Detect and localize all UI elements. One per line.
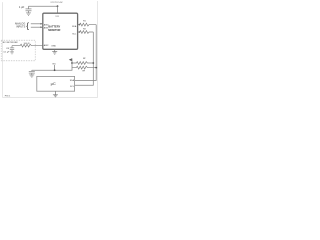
junction dot VCC node bbox=[57, 5, 59, 7]
svg-text:BATTERY: BATTERY bbox=[48, 25, 60, 29]
svg-text:RP: RP bbox=[83, 58, 86, 60]
svg-text:SDA: SDA bbox=[70, 79, 75, 82]
capacitor C2 bbox=[10, 46, 14, 52]
junction dot SDA pin bbox=[79, 24, 81, 26]
microcontroller U2 box bbox=[37, 76, 75, 91]
svg-text:INPUTS: INPUTS bbox=[16, 26, 26, 29]
ground (C2) bbox=[10, 52, 14, 54]
ground (U1 GND pin) bbox=[52, 49, 57, 54]
op-amp U1 battery monitor box bbox=[43, 13, 78, 49]
wire pull-up rail bbox=[32, 58, 72, 70]
wire VCC pin drop bbox=[57, 6, 59, 13]
svg-text:R2: R2 bbox=[83, 29, 87, 31]
border frame bbox=[3, 1, 98, 97]
junction dot VDD/rail bbox=[54, 69, 56, 71]
junction dot SCL pin bbox=[79, 31, 81, 33]
wire SDA vertical bbox=[75, 25, 97, 81]
svg-text:SDA: SDA bbox=[72, 25, 77, 28]
wire VDD stub bbox=[54, 65, 56, 70]
capacitor C3 bbox=[29, 70, 35, 75]
junction dot RP1/SCL bbox=[92, 62, 94, 64]
ground (U2) bbox=[53, 91, 58, 97]
junction dot RP2/SDA bbox=[95, 67, 97, 69]
wire VCC rail top bbox=[29, 5, 58, 7]
resistor R2 (SCL series) bbox=[78, 31, 94, 34]
capacitor C1 bbox=[26, 6, 32, 12]
svg-text:{: { bbox=[26, 20, 29, 30]
svg-text:2.7V TO 5.5V: 2.7V TO 5.5V bbox=[50, 2, 63, 4]
RC network dashed box bbox=[1, 40, 35, 61]
svg-text:MONITOR: MONITOR bbox=[48, 28, 60, 32]
resistor RIN bbox=[12, 44, 43, 47]
wire arrow AIN0 bbox=[31, 23, 41, 25]
ground (C3) bbox=[29, 75, 34, 77]
resistor RP2 (pull-up SDA) bbox=[72, 66, 96, 69]
svg-text:FIG 1: FIG 1 bbox=[5, 96, 11, 98]
wire arrow AIN1 bbox=[31, 26, 41, 28]
ground (C1) bbox=[26, 13, 31, 15]
resistor R1 (SDA series) bbox=[78, 23, 97, 26]
resistor RP1 (pull-up SCL) bbox=[72, 62, 93, 65]
junction dot rail/RP1 bbox=[71, 62, 73, 64]
svg-text:CIN: CIN bbox=[6, 48, 9, 50]
svg-text:R1: R1 bbox=[83, 20, 87, 22]
svg-text:GND: GND bbox=[51, 46, 56, 48]
wire SCL vertical bbox=[75, 32, 94, 85]
supply flag VDD rail bbox=[69, 58, 72, 61]
svg-text:RP: RP bbox=[82, 71, 85, 73]
svg-text:RC NETWORK: RC NETWORK bbox=[3, 42, 18, 44]
svg-text:0.1 μF: 0.1 μF bbox=[3, 51, 10, 53]
svg-text:μC: μC bbox=[51, 81, 56, 86]
svg-text:1 μF: 1 μF bbox=[19, 5, 25, 9]
